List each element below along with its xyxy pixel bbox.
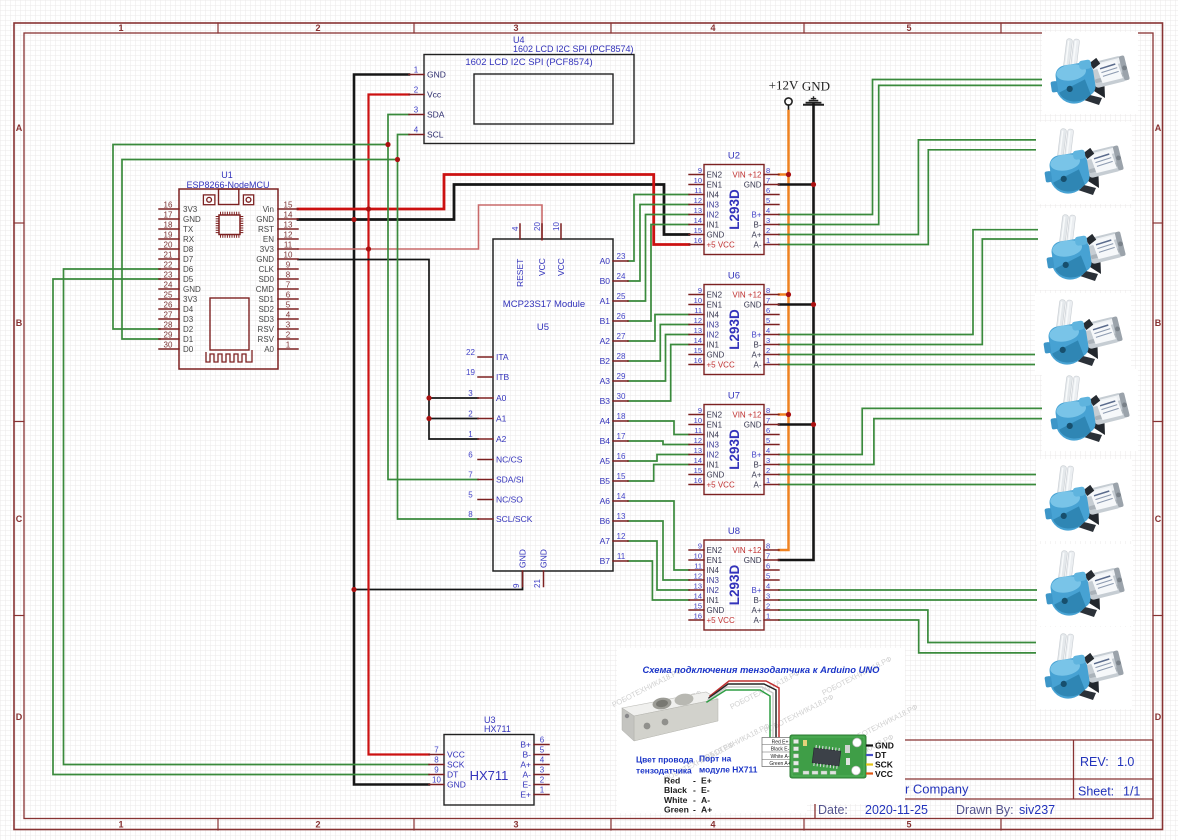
svg-text:E+: E+ bbox=[520, 790, 531, 800]
svg-text:19: 19 bbox=[164, 231, 173, 240]
svg-text:GND: GND bbox=[802, 79, 830, 94]
svg-text:D5: D5 bbox=[183, 275, 194, 284]
inset wire white bbox=[708, 687, 773, 755]
wire black stub U6.GND7 bbox=[779, 303, 814, 306]
U3 pin 3 A- bbox=[534, 774, 549, 776]
U8 pin 5 NC bbox=[764, 579, 779, 581]
svg-text:Порт на: Порт на bbox=[699, 754, 732, 764]
svg-text:модуле HX711: модуле HX711 bbox=[699, 765, 758, 775]
U3 pin 2 E- bbox=[534, 784, 549, 786]
svg-text:Red: Red bbox=[664, 776, 680, 786]
U7 pin 2 A+ bbox=[764, 474, 779, 476]
svg-text:B5: B5 bbox=[600, 476, 611, 486]
wire B6-U8.IN3 bbox=[628, 521, 689, 580]
U5 pin 25 A1 bbox=[613, 300, 628, 302]
svg-text:5: 5 bbox=[766, 196, 770, 205]
svg-text:23: 23 bbox=[617, 252, 626, 261]
U6 pin 14 IN1 bbox=[689, 344, 704, 346]
svg-text:IN1: IN1 bbox=[707, 596, 720, 605]
svg-text:3: 3 bbox=[513, 23, 518, 33]
U8 pin 14 IN1 bbox=[689, 599, 704, 601]
svg-text:21: 21 bbox=[164, 251, 173, 260]
wire B3-U6.IN1 bbox=[628, 345, 689, 402]
svg-text:U7: U7 bbox=[728, 391, 740, 402]
svg-text:IN3: IN3 bbox=[707, 441, 720, 450]
U5 bottom pin 21 GND bbox=[543, 571, 545, 587]
svg-text:A7: A7 bbox=[600, 536, 611, 546]
U2 pin 1 A- bbox=[764, 244, 779, 246]
U1 pin 20 D8 bbox=[159, 248, 179, 250]
svg-text:B0: B0 bbox=[600, 276, 611, 286]
ESP8266-NodeMCU U1 body bbox=[179, 189, 278, 369]
wire B2-U6.IN3 bbox=[628, 325, 689, 362]
U5 pin 30 B3 bbox=[613, 400, 628, 402]
svg-text:16: 16 bbox=[164, 201, 173, 210]
svg-text:14: 14 bbox=[694, 592, 702, 601]
U2 pin 8 VIN +12 bbox=[764, 174, 779, 176]
inset pcb chip bbox=[812, 745, 841, 769]
svg-text:IN3: IN3 bbox=[707, 321, 720, 330]
svg-text:D1: D1 bbox=[183, 335, 194, 344]
pump 1 (peristaltic pump photo) bbox=[1042, 32, 1138, 114]
pump 6 (peristaltic pump photo) bbox=[1036, 459, 1132, 541]
U1 pin 7 CMD bbox=[278, 288, 298, 290]
svg-text:1: 1 bbox=[766, 612, 770, 621]
U5 pin 26 B1 bbox=[613, 320, 628, 322]
svg-text:10: 10 bbox=[432, 776, 441, 785]
svg-text:HX711: HX711 bbox=[484, 724, 511, 734]
wire A4-U7.IN4 bbox=[628, 421, 689, 435]
inset wiring table bbox=[762, 738, 798, 767]
svg-text:VIN +12: VIN +12 bbox=[732, 546, 762, 555]
svg-text:4: 4 bbox=[766, 206, 770, 215]
svg-text:16: 16 bbox=[694, 236, 702, 245]
wire U6.B- pump3 bbox=[779, 239, 1039, 345]
U2 pin 13 IN2 bbox=[689, 214, 704, 216]
U1 pin 29 D1 bbox=[159, 338, 179, 340]
svg-text:EN2: EN2 bbox=[707, 411, 723, 420]
U6 pin 9 EN2 bbox=[689, 294, 704, 296]
svg-text:5: 5 bbox=[540, 746, 545, 755]
svg-text:siv237: siv237 bbox=[1019, 803, 1055, 817]
svg-text:GND: GND bbox=[744, 181, 762, 190]
U2 pin 4 B+ bbox=[764, 214, 779, 216]
svg-text:IN2: IN2 bbox=[707, 451, 720, 460]
svg-text:2: 2 bbox=[766, 466, 770, 475]
svg-text:20: 20 bbox=[164, 241, 173, 250]
wire A5-U7.IN2 bbox=[628, 455, 689, 462]
svg-text:VCC: VCC bbox=[556, 258, 566, 276]
U7 pin 14 IN1 bbox=[689, 464, 704, 466]
svg-text:1602 LCD I2C SPI (PCF8574): 1602 LCD I2C SPI (PCF8574) bbox=[513, 44, 634, 54]
svg-text:6: 6 bbox=[766, 562, 770, 571]
wire A0-U2.IN4 bbox=[628, 195, 689, 262]
U5 pin 2 A1 bbox=[478, 418, 493, 420]
svg-text:ITA: ITA bbox=[496, 352, 509, 362]
svg-text:15: 15 bbox=[694, 602, 702, 611]
svg-text:3V3: 3V3 bbox=[260, 245, 275, 254]
svg-text:10: 10 bbox=[694, 416, 702, 425]
svg-text:IN2: IN2 bbox=[707, 331, 720, 340]
U8 pin 6 NC bbox=[764, 569, 779, 571]
svg-text:Red E+: Red E+ bbox=[772, 739, 789, 745]
svg-text:10: 10 bbox=[694, 176, 702, 185]
U5 pin 1 A2 bbox=[478, 438, 493, 440]
svg-text:VCC: VCC bbox=[447, 750, 465, 760]
U5 top pin 4 RESET bbox=[519, 224, 521, 239]
U7 pin 16 +5 VCC bbox=[689, 484, 704, 486]
svg-text:A5: A5 bbox=[600, 456, 611, 466]
svg-text:13: 13 bbox=[694, 582, 702, 591]
svg-text:12: 12 bbox=[694, 196, 702, 205]
svg-text:Цвет провода: Цвет провода bbox=[636, 755, 694, 765]
svg-text:L293D: L293D bbox=[727, 564, 742, 605]
wire U6.A+ pump4 bbox=[779, 354, 1040, 356]
svg-text:23: 23 bbox=[164, 271, 173, 280]
svg-text:17: 17 bbox=[164, 211, 173, 220]
wire net GND black: U4.GND to HX711.GND vertical bus bbox=[354, 75, 429, 785]
svg-text:13: 13 bbox=[694, 206, 702, 215]
wire A7-U8.IN2 bbox=[628, 541, 689, 590]
svg-text:GND: GND bbox=[875, 741, 894, 751]
U3 pin 9 DT bbox=[429, 774, 444, 776]
svg-text:EN: EN bbox=[263, 235, 274, 244]
U1 pin 11 3V3 bbox=[278, 248, 298, 250]
U5 pin 19 ITB bbox=[478, 376, 493, 378]
junction GND bus / U7.GND7 bbox=[811, 422, 816, 427]
U1 pin 6 SD1 bbox=[278, 298, 298, 300]
svg-text:30: 30 bbox=[617, 392, 626, 401]
svg-text:3: 3 bbox=[414, 106, 419, 115]
junction A1 address net bbox=[426, 416, 431, 421]
svg-text:TX: TX bbox=[183, 225, 194, 234]
svg-text:L293D: L293D bbox=[727, 429, 742, 470]
svg-text:White: White bbox=[664, 795, 688, 805]
svg-text:Green: Green bbox=[664, 805, 689, 815]
svg-text:EN2: EN2 bbox=[707, 171, 723, 180]
svg-text:C: C bbox=[16, 514, 23, 524]
svg-text:6: 6 bbox=[540, 736, 545, 745]
svg-text:IN4: IN4 bbox=[707, 431, 720, 440]
svg-text:7: 7 bbox=[468, 471, 473, 480]
U8 pin 11 IN4 bbox=[689, 569, 704, 571]
svg-text:U6: U6 bbox=[728, 271, 740, 282]
U7 pin 13 IN2 bbox=[689, 454, 704, 456]
svg-text:30: 30 bbox=[164, 341, 173, 350]
U3 pin 6 B+ bbox=[534, 744, 549, 746]
svg-text:6: 6 bbox=[766, 426, 770, 435]
svg-text:6: 6 bbox=[468, 451, 473, 460]
svg-text:8: 8 bbox=[766, 166, 770, 175]
U1 pin 17 GND bbox=[159, 218, 179, 220]
pump 7 (peristaltic pump photo) bbox=[1037, 544, 1133, 626]
U6 pin 2 A+ bbox=[764, 354, 779, 356]
wire ESP.D6 to HX711.SCK bbox=[64, 269, 430, 765]
svg-text:16: 16 bbox=[617, 452, 626, 461]
U5 pin 6 NC/CS bbox=[478, 459, 493, 461]
U1 pin 8 SD0 bbox=[278, 278, 298, 280]
svg-text:29: 29 bbox=[164, 331, 173, 340]
inset table-to-pcb marks bbox=[798, 740, 807, 743]
U8 pin 15 GND bbox=[689, 609, 704, 611]
svg-text:L293D: L293D bbox=[727, 309, 742, 350]
wire net SCL green: U4.SCL down to U5.SCL/SCK bbox=[398, 135, 479, 520]
L293D U7 body bbox=[704, 405, 764, 495]
svg-text:1: 1 bbox=[766, 236, 770, 245]
junction SCL net bbox=[395, 157, 400, 162]
U1 pin 27 D3 bbox=[159, 318, 179, 320]
wire B1-U2.IN1 bbox=[628, 225, 689, 322]
svg-text:GND: GND bbox=[256, 215, 274, 224]
svg-text:A0: A0 bbox=[600, 256, 611, 266]
U5 pin 8 SCL/SCK bbox=[478, 518, 493, 520]
svg-text:GND: GND bbox=[518, 549, 528, 568]
svg-text:9: 9 bbox=[698, 286, 702, 295]
U8 pin 9 EN2 bbox=[689, 549, 704, 551]
svg-text:5: 5 bbox=[906, 820, 911, 830]
svg-text:EN2: EN2 bbox=[707, 546, 723, 555]
svg-text:4: 4 bbox=[286, 311, 291, 320]
svg-text:CLK: CLK bbox=[258, 265, 274, 274]
U1 antenna zigzag bbox=[206, 350, 252, 362]
U6 pin 13 IN2 bbox=[689, 334, 704, 336]
svg-text:U8: U8 bbox=[728, 526, 740, 537]
svg-text:8: 8 bbox=[766, 286, 770, 295]
svg-text:6: 6 bbox=[286, 291, 291, 300]
U5 pin 3 A0 bbox=[478, 397, 493, 399]
svg-text:2020-11-25: 2020-11-25 bbox=[865, 803, 928, 817]
svg-text:A-: A- bbox=[754, 361, 762, 370]
U7 pin 3 B- bbox=[764, 464, 779, 466]
U5 pin 14 A6 bbox=[613, 500, 628, 502]
U1 pin 2 RSV bbox=[278, 338, 298, 340]
svg-text:+5 VCC: +5 VCC bbox=[707, 361, 735, 370]
U8 pin 8 VIN +12 bbox=[764, 549, 779, 551]
svg-text:DT: DT bbox=[447, 770, 458, 780]
svg-text:A+: A+ bbox=[751, 231, 761, 240]
wire B5-U7.IN1 bbox=[628, 465, 689, 482]
junction +12V bus / U7.VIN bbox=[786, 412, 791, 417]
U6 pin 16 +5 VCC bbox=[689, 364, 704, 366]
U1 pin 9 CLK bbox=[278, 268, 298, 270]
pump 5 (peristaltic pump photo) bbox=[1042, 369, 1138, 451]
svg-text:11: 11 bbox=[617, 552, 626, 561]
U1 pin 26 D4 bbox=[159, 308, 179, 310]
U5 pin 7 SDA/SI bbox=[478, 479, 493, 481]
svg-text:12: 12 bbox=[284, 231, 293, 240]
svg-text:9: 9 bbox=[698, 166, 702, 175]
svg-text:GND: GND bbox=[183, 285, 201, 294]
svg-text:13: 13 bbox=[694, 326, 702, 335]
svg-text:B: B bbox=[16, 318, 23, 328]
svg-text:GND: GND bbox=[707, 231, 725, 240]
svg-text:SDA: SDA bbox=[427, 110, 445, 120]
svg-text:13: 13 bbox=[617, 512, 626, 521]
svg-text:GND: GND bbox=[447, 780, 466, 790]
junction SDA net bbox=[385, 142, 390, 147]
U1 pin 19 RX bbox=[159, 238, 179, 240]
svg-text:15: 15 bbox=[694, 346, 702, 355]
svg-text:2: 2 bbox=[315, 820, 320, 830]
svg-text:9: 9 bbox=[698, 542, 702, 551]
svg-text:A+: A+ bbox=[751, 471, 761, 480]
svg-text:15: 15 bbox=[617, 472, 626, 481]
svg-text:E+: E+ bbox=[701, 776, 712, 786]
U1 pin 5 SD2 bbox=[278, 308, 298, 310]
svg-text:SD2: SD2 bbox=[258, 305, 274, 314]
svg-text:B3: B3 bbox=[600, 396, 611, 406]
svg-text:B+: B+ bbox=[751, 331, 761, 340]
svg-text:U2: U2 bbox=[728, 151, 740, 162]
svg-text:6: 6 bbox=[766, 306, 770, 315]
svg-text:тензодатчика: тензодатчика bbox=[636, 766, 692, 776]
svg-text:VIN +12: VIN +12 bbox=[732, 411, 762, 420]
svg-text:B-: B- bbox=[523, 750, 532, 760]
U3 pin 8 SCK bbox=[429, 764, 444, 766]
svg-text:RSV: RSV bbox=[258, 325, 275, 334]
svg-text:10: 10 bbox=[694, 296, 702, 305]
svg-text:A+: A+ bbox=[520, 760, 531, 770]
U4 lcd screen rectangle bbox=[474, 74, 613, 124]
svg-text:9: 9 bbox=[698, 406, 702, 415]
svg-text:VIN +12: VIN +12 bbox=[732, 171, 762, 180]
junction GND bus / U5.GND9 branch bbox=[351, 587, 356, 592]
U2 pin 3 B- bbox=[764, 224, 779, 226]
svg-text:10: 10 bbox=[284, 251, 293, 260]
svg-text:14: 14 bbox=[617, 492, 626, 501]
U7 pin 15 GND bbox=[689, 474, 704, 476]
svg-text:A+: A+ bbox=[751, 606, 761, 615]
U2 pin 2 A+ bbox=[764, 234, 779, 236]
U8 pin 7 GND bbox=[764, 559, 779, 561]
U5 pin 16 A5 bbox=[613, 460, 628, 462]
U2 pin 9 EN2 bbox=[689, 174, 704, 176]
U1 pin 24 GND bbox=[159, 288, 179, 290]
svg-text:18: 18 bbox=[164, 221, 173, 230]
svg-text:1: 1 bbox=[414, 66, 419, 75]
svg-text:Схема подключения тензодатчика: Схема подключения тензодатчика к Arduino… bbox=[643, 664, 881, 675]
wire B0-U2.IN3 bbox=[628, 205, 689, 282]
svg-text:3: 3 bbox=[766, 456, 770, 465]
svg-text:13: 13 bbox=[284, 221, 293, 230]
svg-text:IN4: IN4 bbox=[707, 311, 720, 320]
svg-text:SD0: SD0 bbox=[258, 275, 274, 284]
pump 3 (peristaltic pump photo) bbox=[1038, 208, 1134, 290]
U8 pin 12 IN3 bbox=[689, 579, 704, 581]
svg-text:SCK: SCK bbox=[447, 760, 465, 770]
svg-text:IN2: IN2 bbox=[707, 211, 720, 220]
wire A2-U6.IN4 bbox=[628, 315, 689, 342]
svg-text:24: 24 bbox=[164, 281, 173, 290]
svg-text:1: 1 bbox=[286, 341, 291, 350]
svg-text:7: 7 bbox=[766, 552, 770, 561]
svg-text:2: 2 bbox=[766, 602, 770, 611]
U5 pin 27 A2 bbox=[613, 340, 628, 342]
svg-text:GND: GND bbox=[744, 421, 762, 430]
svg-text:Date:: Date: bbox=[818, 803, 848, 817]
inset load cell holes bbox=[652, 696, 673, 710]
wire SDA branch from ESP.D2 bbox=[113, 145, 388, 330]
svg-text:22: 22 bbox=[164, 261, 173, 270]
svg-text:A4: A4 bbox=[600, 416, 611, 426]
U6 pin 1 A- bbox=[764, 364, 779, 366]
U4 1602 LCD body bbox=[424, 55, 634, 144]
svg-text:8: 8 bbox=[468, 510, 473, 519]
svg-text:IN2: IN2 bbox=[707, 586, 720, 595]
svg-text:White A-: White A- bbox=[771, 754, 790, 760]
U8 pin 13 IN2 bbox=[689, 589, 704, 591]
wire U7.B- pump5 bbox=[779, 419, 1043, 465]
wire U6.B+ pump3 bbox=[779, 230, 1039, 335]
svg-text:RST: RST bbox=[258, 225, 274, 234]
wire orange stub U7.VIN bbox=[779, 413, 789, 416]
svg-text:B6: B6 bbox=[600, 516, 611, 526]
U4 pin 4 SCL bbox=[409, 134, 424, 136]
svg-text:B+: B+ bbox=[751, 451, 761, 460]
U1 pin 3 RSV bbox=[278, 328, 298, 330]
U1 pin 12 EN bbox=[278, 238, 298, 240]
svg-text:14: 14 bbox=[284, 211, 293, 220]
svg-text:EN1: EN1 bbox=[707, 556, 723, 565]
svg-text:26: 26 bbox=[617, 312, 626, 321]
svg-text:VCC: VCC bbox=[875, 769, 893, 779]
svg-text:DT: DT bbox=[875, 750, 887, 760]
wire branch to U5.A1 bbox=[429, 418, 478, 420]
wire branch to U5.A0 bbox=[429, 397, 478, 399]
wire A6-U8.IN4 bbox=[628, 501, 689, 570]
inset HX711 pcb bbox=[790, 735, 866, 778]
U7 pin 6 NC bbox=[764, 434, 779, 436]
svg-text:MCP23S17 Module: MCP23S17 Module bbox=[503, 299, 585, 310]
U3 pin 1 E+ bbox=[534, 794, 549, 796]
U5 top pin 20 VCC bbox=[541, 224, 543, 239]
U2 pin 16 +5 VCC bbox=[689, 244, 704, 246]
svg-text:EN2: EN2 bbox=[707, 291, 723, 300]
svg-text:SD3: SD3 bbox=[258, 315, 274, 324]
svg-text:IN1: IN1 bbox=[707, 221, 720, 230]
svg-text:1: 1 bbox=[118, 23, 123, 33]
U1 pin 30 D0 bbox=[159, 348, 179, 350]
svg-text:-: - bbox=[693, 785, 696, 795]
U1 pin 14 GND bbox=[278, 218, 298, 220]
svg-text:B+: B+ bbox=[520, 740, 531, 750]
U1 pin 25 3V3 bbox=[159, 298, 179, 300]
U2 pin 15 GND bbox=[689, 234, 704, 236]
svg-text:14: 14 bbox=[694, 456, 702, 465]
svg-text:24: 24 bbox=[617, 272, 626, 281]
svg-text:A-: A- bbox=[754, 241, 762, 250]
U1 pin 22 D6 bbox=[159, 268, 179, 270]
wire net +5V red: U4.Vcc to HX711.VCC vertical bus bbox=[369, 95, 430, 755]
svg-text:-: - bbox=[693, 795, 696, 805]
svg-text:12: 12 bbox=[694, 572, 702, 581]
U5 top pin 10 VCC bbox=[560, 224, 562, 239]
wire B7-U8.IN1 bbox=[628, 561, 689, 600]
U1 pin 10 GND bbox=[278, 258, 298, 260]
svg-text:11: 11 bbox=[694, 186, 702, 195]
svg-text:GND: GND bbox=[744, 556, 762, 565]
U6 pin 11 IN4 bbox=[689, 314, 704, 316]
svg-text:VIN +12: VIN +12 bbox=[732, 291, 762, 300]
U8 pin 2 A+ bbox=[764, 609, 779, 611]
svg-text:16: 16 bbox=[694, 612, 702, 621]
svg-text:VCC: VCC bbox=[537, 258, 547, 276]
svg-text:19: 19 bbox=[466, 368, 475, 377]
svg-text:Vcc: Vcc bbox=[427, 90, 442, 100]
svg-text:NC/CS: NC/CS bbox=[496, 455, 523, 465]
svg-text:GND: GND bbox=[427, 70, 446, 80]
U5 pin 12 A7 bbox=[613, 540, 628, 542]
